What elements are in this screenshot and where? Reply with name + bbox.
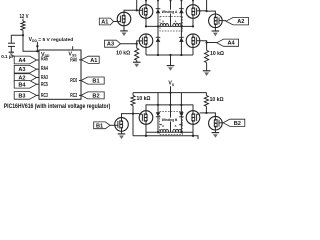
- svg-text:0.1 µF: 0.1 µF: [1, 54, 14, 59]
- wire gate column right top bridge A: [206, 0, 208, 11]
- junction rail A at D4: [180, 54, 182, 56]
- svg-text:A1: A1: [90, 58, 97, 64]
- resistor R4 10k: [131, 96, 135, 106]
- diode D3: [179, 8, 184, 10]
- transistor Q7 bridge B left: [139, 111, 153, 125]
- node A3 flag at bridge A: [105, 40, 121, 47]
- winding B dashed box: [160, 112, 183, 135]
- svg-text:B4: B4: [18, 82, 26, 88]
- inductor winding A first coil: [160, 23, 168, 26]
- svg-text:B1: B1: [96, 123, 103, 129]
- node B3 input flag: [14, 92, 36, 100]
- wire bottom rail bridge B: [133, 136, 198, 139]
- wire VSS pin stub: [72, 46, 74, 50]
- resistor R2 10k: [135, 48, 139, 60]
- wire coil B left stub: [160, 124, 162, 126]
- node A2 input flag: [14, 74, 36, 82]
- svg-text:Winding A: Winding A: [162, 9, 178, 14]
- svg-text:RC3: RC3: [41, 93, 48, 99]
- junction at IC VDD pin wire: [36, 50, 38, 52]
- wire to Q1 gate: [137, 9, 140, 11]
- node B2 output flag: [81, 92, 104, 99]
- svg-text:A3: A3: [107, 42, 114, 48]
- svg-text:B2: B2: [234, 121, 241, 127]
- inductor winding B second coil: [173, 129, 181, 132]
- wire node to C1: [11, 35, 23, 43]
- node A1 flag at bridge A: [99, 18, 113, 25]
- junction gate node B right: [205, 112, 207, 114]
- ground under R2: [133, 61, 141, 63]
- ground under Q5: [120, 30, 128, 32]
- wire Q7 source to bottom rail: [145, 124, 147, 136]
- capacitor C1 0.1uF: [8, 42, 15, 44]
- junction rail A at D2: [157, 54, 159, 56]
- transistor Q8 bridge B right: [186, 111, 200, 125]
- resistor R3 10k: [205, 50, 209, 62]
- wire R3 to ground: [206, 63, 208, 71]
- wire Q1 source to winding node A-left: [145, 18, 147, 26]
- svg-text:A: A: [162, 124, 164, 128]
- svg-text:A3: A3: [18, 67, 25, 73]
- wire center tap B: [170, 105, 172, 132]
- wire B4 flag to pin: [37, 83, 39, 85]
- wire A2 flag to pin: [37, 77, 39, 79]
- svg-text:RC5: RC5: [41, 82, 48, 88]
- wire rail B to R5: [205, 93, 207, 96]
- wire stub tops at crop edge: [145, 0, 147, 2]
- wire center tap A: [170, 0, 172, 26]
- diode D2: [156, 36, 161, 38]
- svg-text:A4: A4: [18, 58, 26, 64]
- transistor Q6 driver A2: [209, 14, 223, 28]
- op-amp U1 PIC16HV616 body: [39, 50, 81, 99]
- wire 12V rail stub to Q3: [192, 0, 194, 5]
- wire R1 to node VDD: [22, 30, 24, 35]
- svg-text:RC0: RC0: [70, 78, 77, 84]
- inductor winding A second coil: [173, 23, 181, 26]
- wire RA0 pin to A1 flag: [79, 59, 81, 61]
- svg-text:10 kΩ: 10 kΩ: [137, 96, 151, 102]
- wire B1 flag to Q9 gate: [110, 124, 115, 126]
- junction gate node A lower-right: [205, 41, 207, 43]
- wire coil B right stub: [179, 124, 182, 126]
- transistor Q10 driver B2: [209, 116, 223, 130]
- wire rail A to ground: [170, 55, 172, 65]
- svg-text:A: A: [162, 20, 164, 24]
- svg-text:A2: A2: [237, 19, 244, 25]
- svg-text:RA5: RA5: [41, 56, 48, 62]
- wire Q6 source to ground: [214, 28, 216, 31]
- node A4 flag at bridge A: [217, 39, 239, 46]
- node B4 input flag: [14, 81, 36, 89]
- wire R5 to gate node B right: [205, 106, 207, 113]
- wire A3 flag to gate node: [120, 43, 136, 45]
- wire gate node to Q2 gate: [137, 41, 140, 44]
- node A2 flag at bridge A: [226, 18, 249, 25]
- wire diode column B right: [180, 93, 182, 133]
- junction VDD stub: [36, 45, 38, 47]
- wire gate node to Q8 gate: [200, 112, 207, 114]
- wire diode column A-right: [180, 0, 182, 55]
- svg-text:B2: B2: [92, 93, 99, 99]
- wire supply rail bridge B: [133, 92, 206, 94]
- wire Q4 source to ground rail A: [192, 48, 194, 56]
- wire to Q3 gate: [200, 10, 207, 12]
- svg-text:A: A: [175, 124, 177, 128]
- wire Q9 drain to gate node: [122, 114, 134, 118]
- junction rail A center: [169, 54, 171, 56]
- resistor R5 10k: [204, 96, 208, 107]
- wire gate node to R2: [136, 44, 138, 49]
- junction diode column B-right at winding: [180, 131, 182, 133]
- wire winding A: [146, 25, 193, 27]
- wire Q9 source to ground: [121, 131, 123, 134]
- wire Q5 source to ground: [123, 26, 125, 31]
- ground bridge A center: [167, 65, 175, 67]
- wire Q10 gate to B2 flag: [221, 122, 224, 124]
- wire ground rail bridge A: [146, 54, 193, 56]
- transistor Q2 bridge A bottom-left: [139, 34, 153, 48]
- ground under Q9: [118, 133, 126, 135]
- wire Q10 source to ground: [214, 130, 216, 132]
- wire 12V to R1: [22, 19, 24, 22]
- wire A4 flag to pin: [37, 59, 39, 61]
- wire Q3 source to winding node A-right: [192, 18, 194, 26]
- node A1 output flag: [81, 56, 99, 63]
- junction gate node B left: [132, 112, 134, 114]
- transistor Q5 driver A1: [117, 12, 131, 26]
- svg-text:RA3: RA3: [41, 75, 48, 81]
- wire drain rail bridge B: [146, 105, 193, 111]
- ground under C1: [9, 51, 14, 53]
- wire Q2 source to ground rail A: [145, 48, 147, 56]
- transistor Q1 bridge A top-left: [139, 5, 153, 19]
- wire gate node to Q7 gate: [133, 113, 139, 115]
- wire rail B to R4: [132, 93, 134, 96]
- diode D6: [179, 112, 184, 116]
- wire Q8 source to bottom rail: [192, 124, 194, 136]
- wire diode column A-left: [157, 0, 159, 55]
- svg-text:10 kΩ: 10 kΩ: [210, 51, 224, 57]
- wire A1 flag to Q5 gate: [114, 21, 118, 23]
- ground under Q6: [212, 30, 220, 32]
- svg-text:10 kΩ: 10 kΩ: [210, 97, 224, 103]
- wire VDD label stub: [36, 42, 38, 51]
- node B2 flag at bridge B: [223, 119, 245, 126]
- wire Q6 gate to A2 flag: [222, 20, 226, 22]
- node B1 flag at bridge B: [94, 122, 110, 129]
- inductor winding B first coil: [160, 129, 168, 132]
- junction gate node A upper-left: [136, 9, 138, 11]
- junction bottom rail at Q7: [145, 135, 147, 137]
- junction gate node A lower-left: [136, 43, 138, 45]
- junction drain rail at D5: [157, 104, 159, 106]
- svg-text:RA0: RA0: [70, 57, 77, 63]
- wire Q5 drain to gate node: [124, 10, 137, 12]
- node A3 input flag: [14, 65, 36, 73]
- diode D5: [156, 112, 161, 116]
- junction diode column B-left at winding: [157, 131, 159, 133]
- wire A3 flag to pin: [37, 68, 39, 70]
- junction drain rail at D6: [180, 104, 182, 106]
- transistor Q9 driver B1: [115, 118, 129, 132]
- wire RC0 pin to B1 flag: [79, 80, 81, 82]
- junction diode column A-left at winding: [157, 25, 159, 27]
- svg-text:A4: A4: [228, 41, 236, 47]
- node B1 output flag: [81, 77, 104, 84]
- junction bottom rail at Q8: [192, 135, 194, 137]
- svg-text:B1: B1: [92, 79, 99, 85]
- junction drain rail center: [169, 104, 171, 106]
- svg-text:A1: A1: [101, 20, 108, 26]
- wire gate node to R3: [206, 43, 208, 51]
- resistor R1: [21, 21, 25, 30]
- wire gate node to Q4 gate: [200, 41, 207, 43]
- wire R2 to ground: [136, 60, 138, 62]
- svg-text:12 V: 12 V: [20, 14, 29, 20]
- winding A label: [161, 10, 178, 14]
- wire VS to winding B tap: [170, 93, 172, 110]
- wire RC2 pin to B2 flag: [79, 94, 81, 96]
- wire diode column B left: [157, 93, 159, 133]
- transistor Q3 bridge A top-right: [186, 5, 200, 19]
- diode D1: [156, 8, 161, 10]
- wire 12V rail stub to Q1: [145, 0, 147, 5]
- wire A4 flag to gate node: [207, 42, 217, 44]
- junction winding A right node: [192, 25, 194, 27]
- wire gate column left top bridge A: [136, 0, 138, 10]
- wire node down to IC VDD pin: [23, 35, 39, 51]
- winding B label: [161, 118, 178, 122]
- wire gate node to Q6 drain: [207, 11, 216, 14]
- junction gate node A upper-right: [205, 10, 207, 12]
- ground under Q10: [212, 132, 220, 134]
- svg-text:RA4: RA4: [41, 66, 49, 72]
- ground under R3: [203, 70, 211, 72]
- wire gate node to Q10 drain: [206, 113, 215, 117]
- svg-text:PIC16HV616 (with internal volt: PIC16HV616 (with internal voltage regula…: [4, 103, 111, 110]
- svg-text:RC2: RC2: [70, 93, 77, 99]
- svg-text:Winding B: Winding B: [162, 117, 178, 122]
- winding A dashed box: [160, 17, 183, 32]
- node A4 input flag: [14, 56, 36, 64]
- svg-text:10 kΩ: 10 kΩ: [116, 50, 130, 56]
- transistor Q4 bridge A bottom-right: [186, 34, 200, 48]
- svg-text:A: A: [175, 20, 177, 24]
- diode D4: [179, 36, 184, 38]
- junction winding A left node: [145, 25, 147, 27]
- wire gate column B left: [132, 106, 134, 136]
- wire winding B: [146, 131, 193, 133]
- junction VS at rail B: [169, 91, 171, 93]
- wire B3 flag to pin: [37, 94, 39, 96]
- svg-text:B3: B3: [18, 93, 25, 99]
- wire C1 to ground: [10, 47, 12, 52]
- wire VS stub: [170, 86, 172, 92]
- junction node VDD: [22, 34, 24, 36]
- junction diode column A-right at winding: [180, 25, 182, 27]
